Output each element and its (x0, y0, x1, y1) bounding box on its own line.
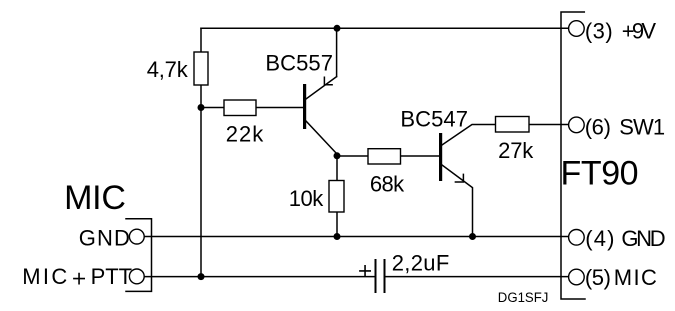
svg-text:4,7k: 4,7k (147, 57, 189, 82)
svg-text:BC557: BC557 (265, 50, 333, 75)
svg-text:(6): (6) (585, 114, 611, 139)
svg-text:BC547: BC547 (400, 106, 468, 131)
svg-text:10k: 10k (289, 186, 325, 211)
svg-text:+9V: +9V (622, 18, 657, 43)
svg-text:2,2uF: 2,2uF (392, 251, 450, 276)
svg-text:MIC: MIC (22, 264, 67, 289)
svg-text:68k: 68k (370, 172, 405, 197)
svg-text:(3): (3) (585, 18, 613, 43)
svg-text:GND: GND (621, 226, 665, 251)
svg-text:PTT: PTT (91, 264, 133, 289)
svg-text:FT90: FT90 (561, 154, 639, 192)
svg-text:MIC: MIC (64, 179, 126, 217)
svg-text:MIC: MIC (614, 265, 657, 290)
svg-text:27k: 27k (498, 138, 534, 163)
svg-text:DG1SFJ: DG1SFJ (498, 290, 549, 305)
svg-text:(5): (5) (585, 265, 611, 290)
svg-text:SW1: SW1 (619, 114, 665, 139)
svg-text:(4): (4) (585, 226, 614, 251)
svg-text:22k: 22k (226, 122, 265, 147)
svg-text:GND: GND (79, 225, 130, 250)
